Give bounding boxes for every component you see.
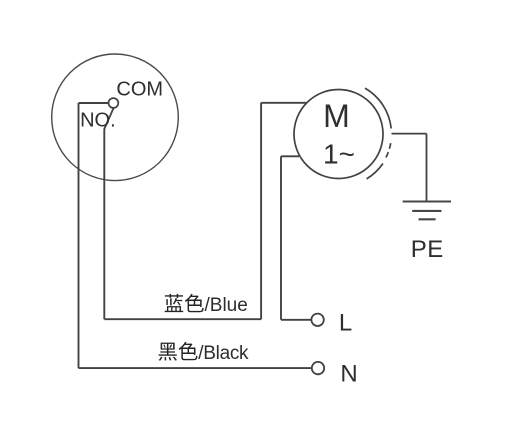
wire N horizontal to terminal N — [79, 367, 312, 369]
svg-text:/Blue: /Blue — [205, 295, 248, 316]
wire horizontal from motor lower-left — [281, 155, 299, 157]
switch lever COM to NO — [104, 107, 114, 129]
terminal N (circle) — [312, 362, 324, 374]
label black wire: char 色 — [179, 342, 198, 360]
wire blue vertical up to motor — [260, 103, 262, 319]
wire NO vertical down — [103, 129, 105, 320]
motor capacitor arc dash 1 — [389, 143, 390, 149]
label blue wire: char 蓝 — [165, 294, 184, 312]
label blue wire: char 色 — [185, 294, 204, 312]
svg-text:1~: 1~ — [323, 139, 355, 170]
svg-text:N: N — [340, 360, 357, 387]
svg-text:COM: COM — [116, 78, 163, 100]
svg-text:NO.: NO. — [80, 109, 116, 131]
switch SW1 body — [52, 54, 179, 181]
ground PE bar 2 — [412, 210, 441, 212]
wire PE vertical down to ground — [426, 134, 428, 202]
motor U1 body circle — [294, 90, 383, 179]
wire COM horizontal from left vertical to COM terminal — [79, 102, 110, 104]
ground PE bar 1 — [403, 200, 451, 202]
terminal COM (circle) — [109, 98, 119, 108]
wire vertical down to L — [280, 156, 282, 319]
motor capacitor arc solid lower — [367, 164, 383, 179]
motor capacitor arc dash 2 — [386, 152, 388, 157]
svg-text:PE: PE — [411, 236, 444, 263]
terminal L (circle) — [311, 314, 323, 326]
ground PE bar 3 — [419, 218, 436, 220]
wire left vertical (black N run) — [78, 103, 80, 368]
svg-text:/Black: /Black — [198, 343, 249, 364]
motor capacitor arc solid upper — [365, 88, 391, 128]
wire L horizontal to terminal L — [281, 319, 311, 321]
svg-text:L: L — [339, 310, 352, 337]
svg-text:M: M — [323, 98, 350, 134]
label black wire: char 黑 — [159, 343, 177, 361]
wire blue horizontal — [104, 318, 261, 320]
wire PE horizontal from arc — [392, 133, 427, 135]
wire horizontal into motor top-left — [261, 102, 306, 104]
